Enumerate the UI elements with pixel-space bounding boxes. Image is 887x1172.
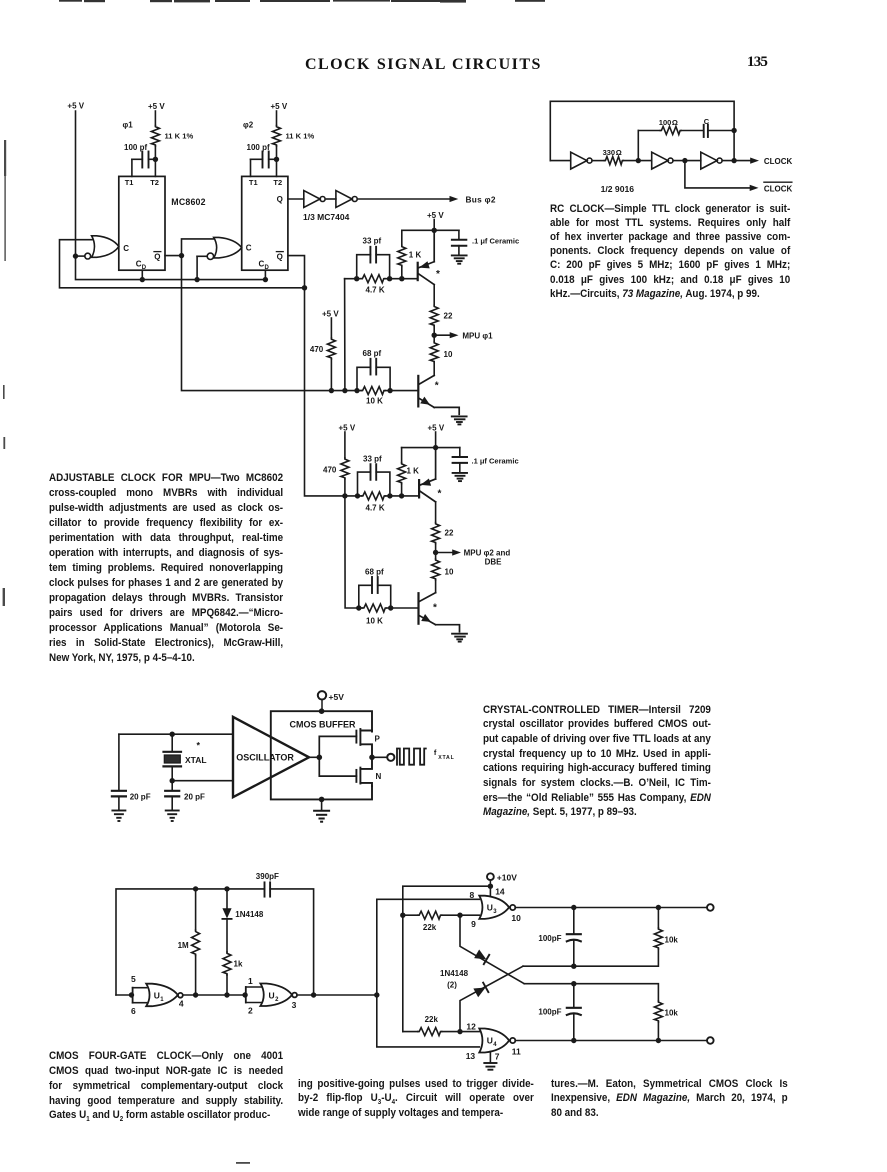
svg-text:14: 14 (495, 886, 505, 896)
label T2 block2 (273, 178, 282, 187)
wire gate1 upper input feedback bus2 (60, 240, 305, 288)
inverter B2 (652, 152, 673, 169)
capacitor C3 .1uf ceramic (452, 230, 466, 254)
label N (376, 772, 382, 781)
node J15 link bottom (342, 388, 347, 393)
node J26 feedback tap (636, 158, 641, 163)
node J20 33pf-2 right (387, 493, 392, 498)
capacitor C5 68pf (357, 359, 390, 391)
label pin 3 (292, 1000, 297, 1010)
label 1/3 MC7404 (303, 212, 350, 222)
wire CD2 to bus1 (264, 270, 266, 279)
node J22 emitter rail 2 (433, 445, 438, 450)
svg-text:Q: Q (277, 195, 283, 204)
ground GND8 (484, 1063, 496, 1070)
svg-text:2: 2 (275, 997, 279, 1003)
wire Q2 to inverters (288, 198, 304, 200)
svg-text:P: P (375, 735, 381, 744)
diode D3 1N4148 lower (460, 966, 523, 1031)
resistor R7 470 (327, 318, 335, 391)
inverter B3 (701, 152, 722, 169)
wire pin7 ground stub (489, 1052, 491, 1063)
label MPU phi2 and DBE (464, 549, 511, 567)
svg-text:22k: 22k (425, 1015, 439, 1024)
svg-text:10: 10 (445, 567, 454, 576)
wire +5V V4 drop (433, 220, 435, 231)
resistor R12 22 (432, 502, 440, 553)
svg-text:Q: Q (277, 252, 283, 261)
NOR gate G2 (197, 237, 242, 259)
mono MVBR U1 MC8602 block1 (119, 176, 165, 270)
NOR gate U4 (479, 1029, 515, 1053)
node J11 4.7K right (387, 276, 392, 281)
label Qbar block1 (154, 252, 160, 261)
label R7 470 (310, 345, 324, 354)
svg-text:+5 V: +5 V (271, 102, 288, 111)
label C1 100 pf (124, 143, 147, 152)
node J44 pin14 (488, 884, 493, 889)
label pin 11 (512, 1046, 521, 1056)
node J40 1k bottom (224, 992, 229, 997)
capacitor C11 20pF right (165, 781, 179, 810)
svg-text:1 K: 1 K (409, 250, 422, 259)
resistor R21 10k (654, 1001, 662, 1041)
svg-text:T1: T1 (125, 178, 134, 187)
svg-text:4.7 K: 4.7 K (366, 503, 385, 512)
ground GND4 (452, 634, 467, 642)
node J2 CD1 on bus1 (140, 277, 145, 282)
label asterisk Q4 (433, 602, 437, 613)
label U2 (269, 990, 280, 1003)
svg-text:C: C (246, 243, 252, 252)
label D1 1N4148 (235, 910, 264, 919)
label +5V V7 (428, 424, 445, 433)
svg-text:Q: Q (154, 252, 160, 261)
svg-text:4.7 K: 4.7 K (366, 286, 385, 295)
label R20 10k (665, 936, 679, 945)
label C10 20 pF (130, 793, 151, 802)
svg-text:φ1: φ1 (123, 121, 134, 130)
label R16 100 ohm (659, 118, 678, 127)
waveform square wave (397, 749, 426, 765)
wire driver2 base row (345, 495, 419, 497)
NOR gate U1 (116, 984, 183, 1007)
resistor R15 330 ohm (604, 157, 623, 165)
transistor M2 NMOS (356, 757, 372, 786)
label R4 4.7 K (366, 286, 385, 295)
capacitor C13 100pF (567, 908, 581, 967)
caption: CRYSTAL-CONTROLLED TIMER (483, 703, 711, 821)
resistor R16 100 ohm (660, 127, 681, 135)
svg-text:CLOCK: CLOCK (764, 185, 793, 194)
node J23 MPU phi2 tap (433, 550, 438, 555)
label R1 11 K 1% (165, 132, 194, 141)
resistor R9 470 (341, 432, 349, 496)
inverter A2 1/3 MC7404 (336, 191, 357, 208)
svg-text:470: 470 (310, 345, 324, 354)
label C3 .1 uf Ceramic (472, 237, 519, 246)
svg-text:33 pf: 33 pf (363, 237, 382, 246)
label Q block2 (277, 195, 283, 204)
svg-text:1N4148: 1N4148 (440, 969, 469, 978)
svg-text:3: 3 (292, 1000, 297, 1010)
wire oscillator top rail (116, 889, 264, 995)
wire driver1 lower row (331, 390, 418, 392)
capacitor C9 C (681, 125, 734, 137)
label R15 330 ohm (603, 148, 622, 157)
wire +10V rail left (403, 886, 490, 1031)
wire Qbar1 to gate2 upper input (182, 239, 214, 256)
svg-text:4: 4 (493, 1042, 497, 1048)
node J13 MPU phi1 tap (432, 333, 437, 338)
node J4 CD2 end of bus1 (263, 277, 268, 282)
transistor Q2 NPN lower (418, 375, 459, 414)
svg-text:+5 V: +5 V (148, 102, 165, 111)
node J19 33pf-2 left (355, 493, 360, 498)
svg-text:.1 μf Ceramic: .1 μf Ceramic (472, 457, 519, 466)
node J46 pin9 (457, 913, 462, 918)
wire gate bus vertical (319, 736, 356, 776)
svg-text:11 K 1%: 11 K 1% (286, 132, 315, 141)
wire link 4.7K-left down to lower row (344, 279, 346, 391)
wire 330 to invB2 (623, 160, 651, 162)
wire T2 pin block1 (154, 159, 156, 176)
node J1 gate1 lower input (73, 253, 78, 258)
label R21 10k (665, 1009, 679, 1018)
svg-text:22: 22 (445, 529, 454, 538)
wire feedback up (637, 131, 639, 161)
wire +5V rail to CD bus1 (76, 256, 266, 280)
label f XTAL (434, 748, 455, 761)
label R18 1k (234, 960, 243, 969)
wire invB3 out to arrow (722, 160, 750, 162)
wire invB1 out to 330ohm (592, 160, 604, 162)
label pin 5 (131, 974, 136, 984)
svg-text:*: * (197, 741, 201, 751)
svg-text:68 pf: 68 pf (363, 349, 382, 358)
resistor R8 10K (361, 387, 385, 395)
transistor Q4 NPN lower (419, 593, 460, 632)
node J25 68pf-2 right (388, 605, 393, 610)
wire gate2 lower input to bus1 (196, 256, 198, 279)
svg-text:10k: 10k (665, 1009, 679, 1018)
label 1N4148 (2) (440, 969, 469, 989)
resistor R19 22k (403, 911, 460, 919)
label C13 100pF (538, 934, 561, 943)
wire lower RC top rail (524, 984, 658, 1001)
label MPU phi1 (462, 331, 493, 340)
svg-text:100 pf: 100 pf (247, 143, 270, 152)
wire pin14 into U3 (489, 886, 491, 896)
resistor R11 1K (398, 448, 406, 496)
node J16 10K left (354, 388, 359, 393)
label +5V crystal (329, 692, 345, 702)
wire U1 out to U2 in (183, 994, 245, 996)
label CLOCK (764, 157, 793, 166)
svg-text:470: 470 (323, 466, 337, 475)
wire Qbar1 down to driver1 row (182, 256, 332, 391)
wire feedback row left (638, 130, 660, 132)
svg-text:11: 11 (512, 1046, 521, 1056)
terminal output T2 (387, 754, 394, 761)
label C4 33 pf (363, 237, 382, 246)
svg-text:MC8602: MC8602 (171, 197, 205, 207)
node J34 gate junction (317, 755, 323, 761)
node J7 Qbar1 (179, 253, 184, 258)
svg-text:100 pf: 100 pf (124, 143, 147, 152)
svg-text:+10V: +10V (497, 872, 517, 882)
svg-text:10: 10 (511, 913, 521, 923)
terminal +10V T3 (487, 873, 494, 886)
svg-text:100pF: 100pF (538, 1008, 561, 1017)
svg-text:*: * (436, 269, 440, 280)
label OSCILLATOR (236, 753, 294, 763)
svg-text:33 pf: 33 pf (363, 454, 382, 463)
label R13 10 (445, 567, 454, 576)
label R3 1 K (409, 250, 422, 259)
capacitor C4 33pf (357, 247, 390, 279)
wire invB2 out (673, 160, 701, 162)
node J42 390pF return (311, 992, 316, 997)
label pin 10 (511, 913, 521, 923)
svg-text:12: 12 (466, 1021, 476, 1031)
svg-text:1/3 MC7404: 1/3 MC7404 (303, 212, 350, 222)
label R5 22 (444, 311, 453, 320)
svg-text:C: C (704, 117, 710, 126)
node J51 pin12 (457, 1029, 462, 1034)
svg-text:2: 2 (248, 1005, 253, 1015)
wire vertical C to output (733, 131, 735, 161)
node J3 gate2 input on bus1 (194, 277, 199, 282)
transistor M1 PMOS (356, 729, 372, 757)
node J27 feedback right (731, 128, 736, 133)
label pin 12 (466, 1021, 476, 1031)
svg-text:22: 22 (444, 311, 453, 320)
svg-text:20 pF: 20 pF (184, 793, 205, 802)
label R11 1 K (407, 466, 420, 475)
label +5V V5 (470 driver1) (322, 309, 339, 318)
wire feed to U4 pin13 (377, 995, 480, 1047)
svg-text:+5 V: +5 V (67, 102, 84, 111)
node J28 clockbar tap (682, 158, 687, 163)
NOR gate U2 (246, 984, 297, 1007)
resistor R13 10 (432, 553, 440, 593)
resistor R10 4.7K (362, 492, 386, 500)
op-amp triangle OSCILLATOR (233, 717, 309, 797)
svg-text:.1 μf Ceramic: .1 μf Ceramic (472, 237, 519, 246)
wire U4 output rail (516, 1040, 708, 1042)
resistor R3 1K (398, 230, 406, 278)
wire rail to invB1 (550, 160, 570, 162)
resistor R6 10 (430, 335, 438, 375)
label C14 100pF (538, 1008, 561, 1017)
svg-text:XTAL: XTAL (185, 755, 207, 765)
wire between inverters (326, 198, 336, 200)
svg-text:1M: 1M (178, 941, 189, 950)
svg-text:11 K 1%: 11 K 1% (165, 132, 194, 141)
svg-text:7: 7 (495, 1052, 500, 1062)
label +5V V6 (470 driver2) (339, 424, 356, 433)
caption: CMOS FOUR-GATE CLOCK col1 (49, 1049, 283, 1123)
wire MPU phi2 arrow (436, 552, 453, 554)
node J31 xtal bottom (170, 778, 175, 783)
resistor R22 22k lower (403, 1028, 460, 1036)
wire upper RC bottom rail (523, 949, 659, 966)
label U4 (487, 1036, 498, 1049)
svg-text:390pF: 390pF (256, 872, 279, 881)
node J49 100pF-1 bottom (571, 964, 576, 969)
label pin 1 (248, 976, 253, 986)
svg-text:3: 3 (493, 909, 497, 915)
wire driver2 lower row (359, 607, 419, 609)
svg-text:10 K: 10 K (366, 617, 383, 626)
label R2 11 K 1% (286, 132, 315, 141)
wire U3 output rail (516, 907, 708, 909)
node J52 100pF-2 bottom (571, 1038, 576, 1043)
svg-text:4: 4 (179, 998, 184, 1008)
node J17 10K right (387, 388, 392, 393)
diode D2 1N4148 upper (460, 915, 524, 984)
terminal +5V T1 (318, 691, 326, 711)
caption: ADJUSTABLE CLOCK FOR MPU (49, 471, 283, 666)
resistor R4 4.7K (361, 275, 385, 283)
diode D1 1N4148 (226, 889, 228, 908)
svg-text:6: 6 (131, 1006, 136, 1016)
svg-text:N: N (376, 772, 382, 781)
label pin 7 (495, 1052, 500, 1062)
transistor Q3 PNP upper (419, 448, 436, 502)
svg-text:+5 V: +5 V (339, 424, 356, 433)
ground GND6 (166, 811, 179, 822)
svg-text:20 pF: 20 pF (130, 793, 151, 802)
wire pin12 into U4 (460, 1031, 479, 1033)
label asterisk xtal (197, 741, 201, 751)
label XTAL (185, 755, 207, 765)
node J37 diode top (224, 886, 229, 891)
svg-text:1/2 9016: 1/2 9016 (601, 184, 635, 194)
terminal output T4 (707, 904, 714, 911)
label R10 4.7 K (366, 503, 385, 512)
svg-text:U: U (269, 990, 275, 1000)
resistor R18 1k (223, 952, 231, 995)
node J8 T2 pin2 (274, 157, 279, 162)
inverter A1 1/3 MC7404 (304, 191, 325, 208)
svg-text:*: * (435, 381, 439, 392)
label R6 10 (444, 350, 453, 359)
transistor Q1 PNP upper (418, 230, 435, 284)
svg-text:10k: 10k (665, 936, 679, 945)
node J29 output join (731, 158, 736, 163)
capacitor C8 68pf (359, 577, 391, 608)
capacitor C6 33pf (358, 464, 390, 496)
page number 135 (747, 54, 767, 71)
ground GND2 (452, 416, 467, 424)
label U1 (154, 990, 165, 1003)
node J14 470 bottom (329, 388, 334, 393)
wire lower input to oscillator (172, 780, 233, 782)
label CMOS BUFFER (290, 720, 356, 730)
svg-text:U: U (487, 1036, 493, 1046)
label pin 13 (466, 1051, 476, 1061)
label pin 6 (131, 1006, 136, 1016)
wire CD1 to bus1 (141, 270, 143, 279)
svg-text:+5V: +5V (329, 692, 345, 702)
wire pin9 into U3 (460, 914, 479, 916)
label pin 9 (471, 919, 476, 929)
node J33 box bottom (319, 797, 325, 803)
node J24 68pf-2 left (356, 605, 361, 610)
resistor R2 11K 1% (273, 111, 281, 159)
svg-text:T1: T1 (249, 178, 258, 187)
label 1/2 9016 (601, 184, 635, 194)
wire oscillator tip to gates (309, 756, 319, 758)
terminal output T5 (707, 1037, 714, 1044)
wire top feedback rail (550, 101, 734, 160)
label C12 390pF (256, 872, 279, 881)
wire output to terminal (372, 756, 387, 758)
node J47 100pF-1 top (571, 905, 576, 910)
label U3 (487, 902, 498, 915)
label C5 68 pf (363, 349, 382, 358)
svg-text:MPU φ2 and: MPU φ2 and (464, 549, 511, 558)
wire link driver2 down to lower row (345, 496, 359, 608)
capacitor C7 .1uf ceramic (453, 448, 467, 472)
label C2 100 pf (247, 143, 270, 152)
wire Qbar1 output (165, 255, 182, 257)
svg-text:1N4148: 1N4148 (235, 910, 264, 919)
label asterisk Q2 (435, 381, 439, 392)
svg-text:C: C (123, 244, 129, 253)
caption: RC CLOCK (550, 202, 790, 301)
label MC8602 (171, 197, 205, 207)
wire T2 pin block2 (276, 159, 278, 176)
wire +5V V1 down left rail (75, 111, 77, 256)
svg-text:MPU φ1: MPU φ1 (462, 331, 493, 340)
crystal XTAL (164, 734, 182, 781)
ground GND3 (453, 473, 467, 481)
node J45 22k-1 left (400, 913, 405, 918)
capacitor C14 100pF (567, 984, 581, 1041)
scan artifact dashes top edge (59, 0, 545, 3)
capacitor C2 100pf (251, 152, 277, 177)
svg-text:CMOS BUFFER: CMOS BUFFER (290, 720, 356, 730)
node J38 U1 input (129, 992, 134, 997)
node J48 10k-1 top (656, 905, 661, 910)
label CLOCKbar (764, 185, 793, 194)
label R14 10 K (366, 617, 383, 626)
svg-text:φ2: φ2 (243, 121, 254, 130)
node J39 1M bottom (193, 992, 198, 997)
label +5V V2 (148, 102, 165, 111)
label CD block2 (259, 260, 270, 272)
svg-text:+5 V: +5 V (322, 309, 339, 318)
label pin 2 (248, 1005, 253, 1015)
label R22 22k (425, 1015, 439, 1024)
label C block2 (246, 243, 252, 252)
caption: CMOS FOUR-GATE CLOCK col2 (298, 1077, 534, 1122)
resistor R14 10K (363, 604, 387, 612)
caption: CMOS FOUR-GATE CLOCK col3 (551, 1077, 788, 1122)
label asterisk Q1 (436, 269, 440, 280)
label Bus phi2 (466, 194, 496, 204)
svg-text:1k: 1k (234, 960, 243, 969)
label C6 33 pf (363, 454, 382, 463)
label C11 20 pF (184, 793, 205, 802)
svg-text:22k: 22k (423, 923, 437, 932)
label +10V (497, 872, 517, 882)
wire driver1 top rail (402, 229, 459, 231)
NOR gate G1 (78, 236, 119, 259)
